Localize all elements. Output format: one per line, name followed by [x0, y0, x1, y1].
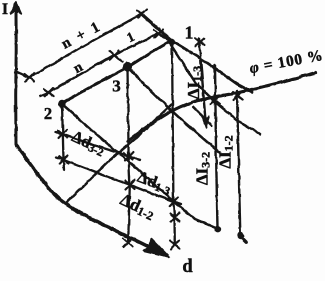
wire: n / 1 dimension line	[40, 30, 170, 97]
d axis	[16, 145, 169, 257]
svg-text:3: 3	[112, 77, 121, 96]
svg-text:Δd1-2: Δd1-2	[117, 190, 158, 223]
wire: delta-d 1-2 / 1-3 dimension line	[56, 158, 181, 205]
svg-text:1: 1	[185, 23, 194, 43]
I axis	[11, 2, 22, 146]
wire: delta-I 1-2 vertical with end dot	[233, 91, 246, 242]
node 1	[168, 38, 175, 45]
wire: carrier line from node 3 down-right	[128, 67, 220, 153]
wire: carrier line from node 2 down-right to bottom dot	[62, 104, 218, 229]
svg-text:1: 1	[124, 29, 137, 46]
wire: n+1 dimension line	[17, 10, 147, 82]
svg-text:n: n	[71, 59, 86, 77]
wire: vertical below node 1	[169, 42, 180, 249]
svg-text:2: 2	[44, 104, 52, 123]
svg-text:Δd3-2: Δd3-2	[68, 127, 108, 160]
wire: vertical below node 3	[124, 67, 135, 247]
phi = 100% line	[128, 73, 316, 142]
svg-text:ΔI3-2: ΔI3-2	[193, 152, 213, 185]
wire: lower line from node 1 down-right	[171, 45, 260, 134]
wire: edge through points 2-3-1	[62, 41, 171, 104]
wire: delta-I 3-2 vertical with end dot	[210, 65, 221, 232]
wire: upper line from node 1 toward phi line	[172, 41, 252, 92]
svg-text:I: I	[2, 1, 8, 18]
node 2	[58, 100, 65, 107]
wire: leader from n+1 end down to node 1	[142, 14, 172, 40]
svg-text:d: d	[182, 257, 193, 277]
wire: delta-d 3-2 dimension line	[56, 132, 140, 160]
svg-text:ΔI1-2: ΔI1-2	[216, 135, 236, 168]
node 3	[123, 62, 132, 71]
wire: vertical below node 2	[58, 104, 68, 170]
wire: short diagonal into vB near vA arrow	[193, 107, 212, 126]
wire: line from vertical-1 down-left to d axis	[67, 104, 172, 202]
wire: delta-I 1-3 dimension vertical	[196, 38, 210, 128]
